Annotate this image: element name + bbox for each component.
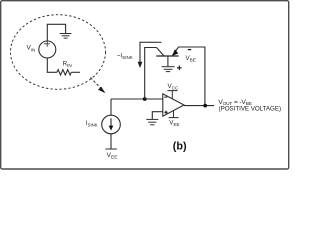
- current source ISINK: [102, 115, 121, 134]
- current flow annotation ~ISINK arrow: [138, 42, 162, 68]
- polarity minus (VBE negative, emitter side): [188, 49, 191, 51]
- wire: Q1 emitter to right rail down to output: [179, 47, 205, 106]
- junction dot: output node: [203, 104, 207, 108]
- svg-text:(POSITIVE VOLTAGE): (POSITIVE VOLTAGE): [219, 106, 281, 113]
- wire: op-amp output to VOUT: [184, 105, 214, 107]
- junction dot: input node: [143, 97, 147, 101]
- dashed ellipse (source circuit boundary): [11, 15, 106, 90]
- pointer arrow from ellipse to input node: [91, 78, 106, 94]
- op-amp U1: [163, 94, 184, 116]
- transistor Q1 (PNP, base grounded): [156, 47, 178, 66]
- ground (Q1 base): [162, 67, 175, 72]
- supply terminal VEE (op-amp bottom): [169, 111, 179, 118]
- wire: current source to VEE terminal: [110, 134, 112, 149]
- polarity plus (VBE positive, base side): [177, 66, 182, 71]
- voltage source VIN: [39, 41, 56, 58]
- wire: input node horizontal to junction: [111, 98, 145, 100]
- wire: VIN bottom to RIN: [47, 58, 57, 72]
- wire: input node corner down to current source: [110, 99, 112, 115]
- wire: op-amp noninverting input to ground: [152, 112, 163, 119]
- svg-text:(b): (b): [173, 141, 187, 153]
- wire: RIN right lead: [71, 71, 80, 73]
- wire: junction up to Q1 collector: [145, 48, 157, 100]
- resistor RIN: [57, 70, 71, 75]
- ground (top, inside ellipse): [60, 34, 72, 39]
- wire: junction to op-amp inverting input: [145, 98, 163, 100]
- wire: VIN top to ground: [47, 24, 65, 41]
- supply terminal VEE (current source): [105, 148, 116, 150]
- supply terminal VCC (op-amp top): [167, 91, 177, 99]
- ground (op-amp + input): [146, 119, 158, 124]
- label VOUT = -VBE (POSITIVE VOLTAGE): [218, 99, 281, 113]
